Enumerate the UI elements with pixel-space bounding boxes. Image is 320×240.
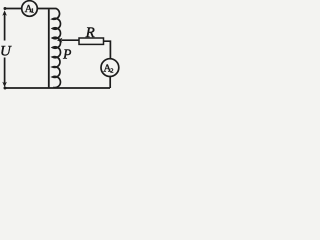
svg-text:2: 2	[110, 68, 113, 75]
svg-text:R: R	[85, 25, 95, 41]
svg-text:U: U	[0, 44, 12, 60]
svg-text:1: 1	[31, 8, 34, 15]
svg-text:P: P	[62, 46, 71, 61]
